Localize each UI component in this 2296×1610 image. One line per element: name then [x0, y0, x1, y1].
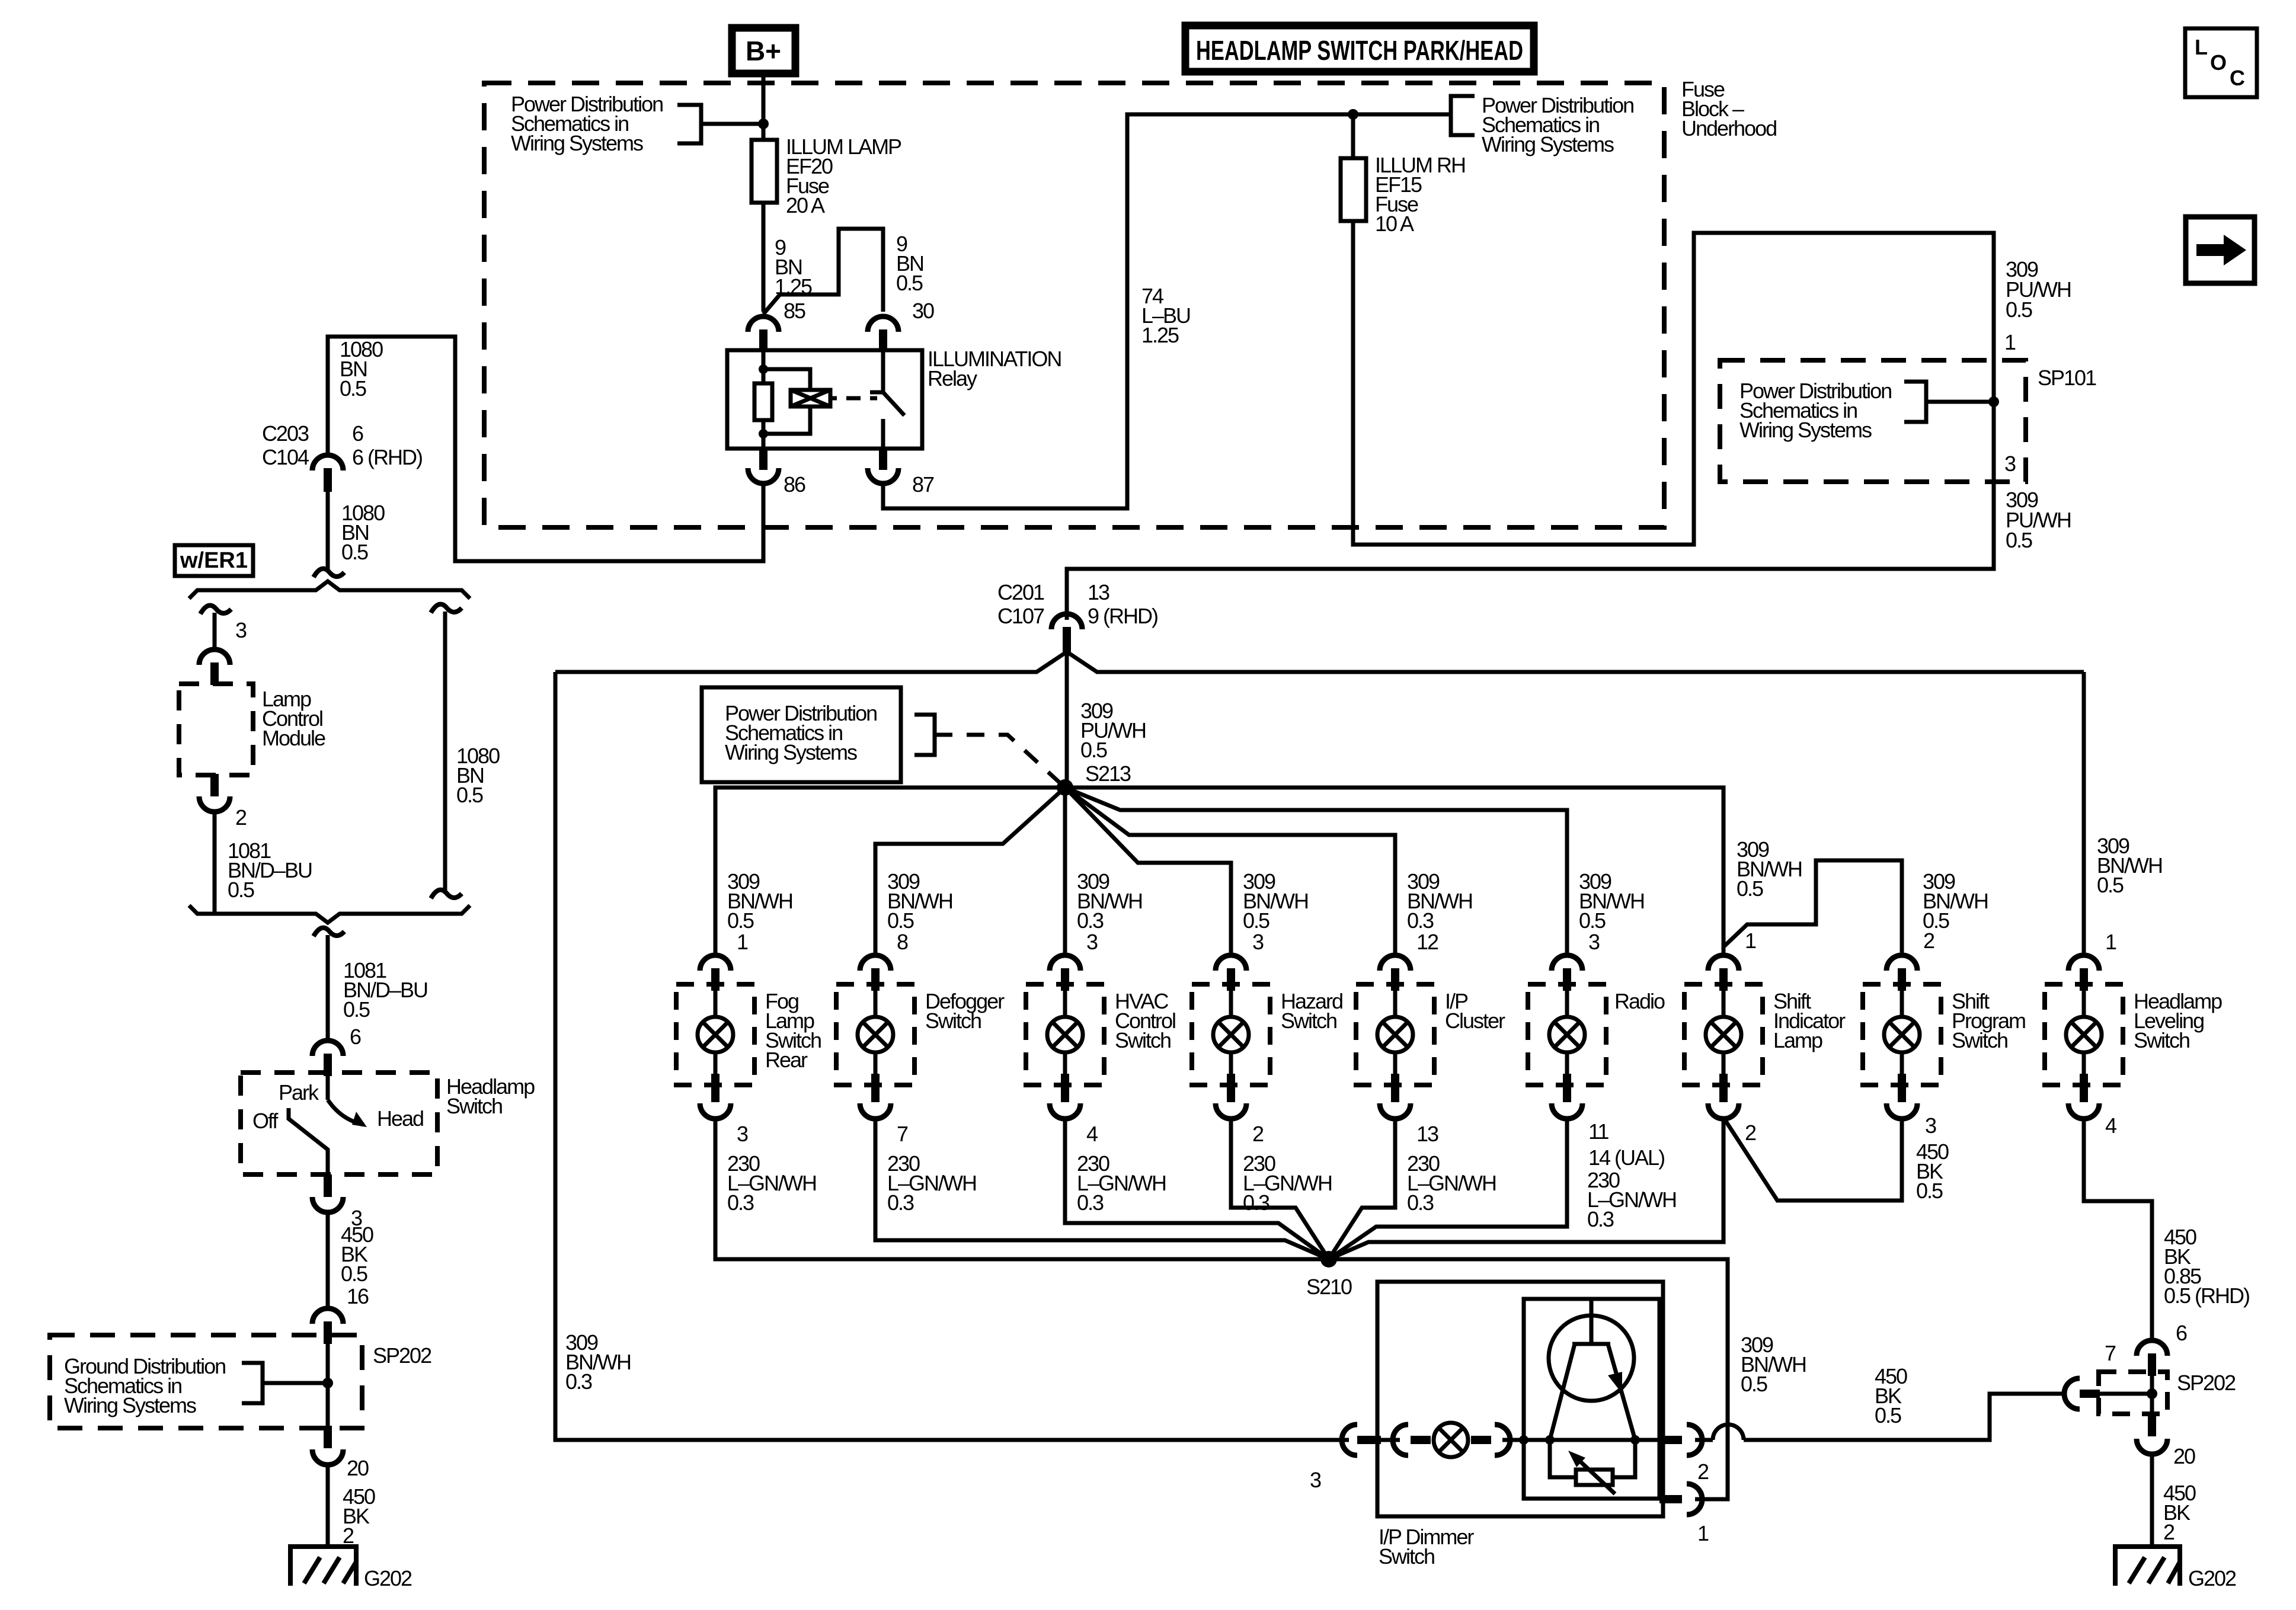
- HVAC control switch illumination lamp: [1026, 930, 1175, 1215]
- transistor emitter arrowhead: [1608, 1372, 1622, 1394]
- wire fuse EF20 to relay pin 85: [762, 203, 766, 312]
- headlamp switch internal contacts: [289, 1073, 364, 1174]
- wire label 309 BN/WH 0.3 I/P cluster: [1407, 869, 1472, 933]
- wire pin 7 to SP202 node: [2100, 1392, 2152, 1396]
- svg-text:1: 1: [737, 930, 748, 954]
- connector arc headlamp switch pin 3: [324, 1174, 332, 1197]
- connector arc dimmer lamp right: [1471, 1436, 1491, 1444]
- arrow continuation box: [2186, 217, 2255, 283]
- connector arc SP202 pin 6: [2137, 1340, 2167, 1356]
- title box HEADLAMP SWITCH PARK/HEAD: [1185, 25, 1534, 72]
- svg-text:Radio: Radio: [1614, 989, 1665, 1013]
- svg-text:1: 1: [2004, 330, 2016, 354]
- wire shift indicator to S210: [1329, 1118, 1723, 1259]
- svg-text:0.3: 0.3: [727, 1190, 754, 1215]
- svg-text:13: 13: [1416, 1122, 1438, 1146]
- wire label 450 BK 0.85 0.5 (RHD): [2164, 1225, 2249, 1308]
- wire through SP202 left: [326, 1340, 330, 1427]
- svg-text:Wiring Systems: Wiring Systems: [1482, 132, 1614, 156]
- wire HVAC to S210: [1065, 1118, 1329, 1259]
- wire left branch to lamp control module: [213, 613, 217, 652]
- wire S213 to defogger switch: [875, 788, 1065, 956]
- svg-text:7: 7: [2105, 1341, 2116, 1365]
- node S213 splice: [1057, 779, 1073, 796]
- bracket for Ground Distribution callout: [242, 1363, 263, 1403]
- label pin 6 / 6 (RHD): [352, 421, 422, 469]
- svg-text:Switch: Switch: [1952, 1028, 2007, 1052]
- wire S213 left to fog lamp switch: [715, 788, 1065, 956]
- svg-text:4: 4: [1086, 1122, 1098, 1146]
- svg-text:0.5: 0.5: [341, 540, 368, 564]
- svg-text:SP202: SP202: [2177, 1371, 2236, 1395]
- svg-text:Switch: Switch: [2134, 1028, 2189, 1052]
- connector arc SP202 left bottom: [324, 1426, 332, 1448]
- connector arc lamp control module bottom: [210, 774, 219, 796]
- brace top (harness split): [189, 581, 470, 598]
- svg-text:G202: G202: [2188, 1566, 2236, 1590]
- defogger switch illumination lamp: [836, 930, 1005, 1215]
- wire C201 down to S213: [1065, 652, 1069, 788]
- bracket for S213 callout: [914, 715, 935, 755]
- svg-text:0.5: 0.5: [340, 376, 366, 401]
- wire label 74 L-BU 1.25: [1141, 284, 1190, 347]
- svg-text:1: 1: [1697, 1521, 1709, 1545]
- svg-text:20 A: 20 A: [786, 193, 825, 217]
- svg-text:30: 30: [912, 299, 934, 323]
- svg-text:3: 3: [2004, 452, 2016, 476]
- node S210 splice: [1320, 1251, 1337, 1267]
- label Headlamp Switch: [446, 1074, 535, 1118]
- svg-text:HEADLAMP SWITCH PARK/HEAD: HEADLAMP SWITCH PARK/HEAD: [1196, 35, 1523, 66]
- I/P cluster illumination lamp: [1356, 930, 1505, 1215]
- wire EF15 down and around to SP101 and C201: [1067, 221, 1994, 620]
- svg-text:Off: Off: [252, 1109, 279, 1133]
- svg-text:11: 11: [1588, 1119, 1609, 1144]
- svg-text:0.3: 0.3: [887, 1190, 914, 1215]
- label C201 C107: [997, 580, 1044, 628]
- svg-text:2: 2: [1252, 1122, 1264, 1146]
- wire label 309 BN/WH 0.5 hazard: [1243, 869, 1308, 933]
- svg-text:Wiring Systems: Wiring Systems: [725, 740, 857, 764]
- svg-text:0.5: 0.5: [896, 271, 923, 295]
- svg-text:Rear: Rear: [765, 1048, 808, 1072]
- svg-text:0.3: 0.3: [1407, 1190, 1434, 1215]
- wire break squiggle right branch bottom: [431, 890, 462, 898]
- dimmer illumination lamp: [1434, 1423, 1468, 1457]
- wire SP202 to ground G202 right: [2150, 1453, 2154, 1547]
- svg-text:2: 2: [343, 1523, 354, 1548]
- wire C201 fanout to distribution bus: [555, 652, 2084, 672]
- wire headlamp switch to SP202: [326, 1211, 330, 1311]
- callout box Power Distribution Schematics (S213): [702, 687, 901, 782]
- svg-text:0.5: 0.5: [2006, 297, 2032, 322]
- w/ER1 reference box: [175, 545, 253, 576]
- wire S213 main to shift indicator lamp: [1065, 788, 1723, 956]
- svg-text:Relay: Relay: [928, 366, 977, 391]
- svg-text:Switch: Switch: [925, 1009, 981, 1033]
- wire junction down to fuse EF15: [1351, 114, 1355, 158]
- radio illumination lamp: [1528, 930, 1676, 1231]
- connector arc dimmer pin 1: [1659, 1495, 1682, 1503]
- relay internal node bottom: [759, 429, 768, 438]
- wire junction to right Power Distribution bracket: [1353, 113, 1451, 117]
- svg-text:12: 12: [1416, 930, 1438, 954]
- wire bracket to SP202 node: [263, 1381, 328, 1385]
- svg-text:3: 3: [1310, 1468, 1321, 1492]
- svg-text:0.5: 0.5: [887, 908, 914, 933]
- wire lamp to module: [1502, 1438, 1524, 1442]
- svg-text:0.5: 0.5: [343, 997, 370, 1022]
- svg-text:3: 3: [1925, 1113, 1936, 1138]
- svg-text:85: 85: [784, 299, 805, 323]
- callout Power Distribution Schematics (fuse block left): [511, 92, 663, 155]
- svg-text:L: L: [2195, 35, 2208, 59]
- svg-text:3: 3: [235, 618, 247, 642]
- relay linkage dashed: [830, 396, 877, 401]
- wire label 309 BN/WH 0.5 radio: [1579, 869, 1644, 933]
- ground G202 left: [290, 1547, 356, 1586]
- connector arc pin 85: [748, 316, 779, 332]
- wire label 450 BK 0.5 (dimmer to SP202): [1875, 1364, 1907, 1427]
- wire label 450 BK 0.5 left: [341, 1222, 373, 1286]
- shift indicator lamp: [1684, 929, 1846, 1145]
- wire label 309 BN/WH 0.3 (dimmer feed): [565, 1330, 631, 1394]
- svg-text:Cluster: Cluster: [1445, 1009, 1505, 1033]
- svg-text:SP202: SP202: [373, 1343, 431, 1368]
- svg-text:Underhood: Underhood: [1681, 116, 1776, 140]
- relay ILLUMINATION Relay box: [727, 350, 922, 449]
- svg-text:S213: S213: [1085, 761, 1131, 786]
- wire break squiggle below bottom brace: [314, 928, 344, 936]
- svg-text:0.5: 0.5: [228, 878, 254, 902]
- connector arc dimmer pin 3: [1342, 1425, 1357, 1455]
- relay resistor: [754, 383, 772, 420]
- wire branch from EF20 to relay pin 30: [763, 229, 883, 314]
- wire brace to headlamp switch: [326, 935, 330, 1043]
- relay internal node top: [759, 364, 768, 374]
- node at B+ feed junction: [758, 119, 769, 129]
- svg-text:0.3: 0.3: [1243, 1190, 1269, 1215]
- wire hazard to S210: [1231, 1118, 1329, 1259]
- wire S213 to radio: [1065, 788, 1567, 956]
- svg-text:Switch: Switch: [1379, 1544, 1434, 1569]
- wire B+ down to fuse EF20: [762, 73, 766, 140]
- fog lamp switch rear illumination lamp: [676, 930, 821, 1215]
- wire label 309 BN/WH 0.5 fog: [727, 869, 792, 933]
- label I/P Dimmer Switch: [1379, 1525, 1474, 1569]
- wire label 309 BN/WH 0.5 headlamp leveling: [2097, 834, 2162, 897]
- svg-text:S210: S210: [1306, 1275, 1352, 1299]
- wire label 1080 BN 0.5 lower: [341, 501, 385, 564]
- label Lamp Control Module: [262, 687, 325, 750]
- connector arc SP202 right bottom: [2148, 1414, 2156, 1436]
- wire label 309 BN/WH 0.5 defogger: [887, 869, 952, 933]
- relay switch contact: [870, 350, 904, 449]
- dimmer transistor module box: [1524, 1299, 1659, 1499]
- svg-text:3: 3: [737, 1122, 748, 1146]
- bracket for right Power Distribution callout: [1451, 96, 1475, 135]
- wire bracket to B+ node: [701, 122, 763, 126]
- svg-text:0.5: 0.5: [456, 783, 483, 807]
- svg-text:0.5: 0.5: [1579, 908, 1606, 933]
- svg-text:9 (RHD): 9 (RHD): [1088, 604, 1157, 628]
- wire radio to S210: [1329, 1118, 1567, 1259]
- svg-text:C107: C107: [997, 604, 1044, 628]
- svg-text:8: 8: [897, 930, 908, 954]
- wire label 309 BN/WH 0.5 shift indicator: [1737, 837, 1802, 901]
- svg-text:0.5: 0.5: [1737, 876, 1763, 901]
- LOC reference box: [2185, 28, 2257, 97]
- svg-text:2: 2: [1923, 929, 1934, 953]
- svg-text:0.5: 0.5: [2006, 528, 2032, 552]
- svg-text:3: 3: [1252, 930, 1264, 954]
- svg-text:3: 3: [1588, 930, 1600, 954]
- relay coil box with X: [791, 390, 830, 406]
- svg-text:0.5: 0.5: [341, 1262, 367, 1286]
- I/P dimmer switch outer box: [1377, 1282, 1663, 1516]
- splice SP202 right dashed box: [2099, 1372, 2167, 1414]
- svg-text:0.5: 0.5: [1080, 738, 1107, 762]
- svg-text:B+: B+: [746, 36, 781, 66]
- svg-text:0.5: 0.5: [727, 908, 754, 933]
- node module entry: [1519, 1435, 1528, 1445]
- svg-text:0.5: 0.5: [1916, 1179, 1943, 1203]
- svg-text:0.3: 0.3: [565, 1369, 592, 1394]
- svg-text:C: C: [2230, 66, 2245, 90]
- label 309 PU/WH 0.5 upper right: [2006, 257, 2071, 322]
- B+ power symbol box: [732, 28, 795, 73]
- wire label 450 BK 2 left: [343, 1484, 375, 1548]
- hazard switch illumination lamp: [1192, 930, 1342, 1215]
- potentiometer arrow: [1573, 1455, 1615, 1494]
- wire pin 87 to EF15 feed junction: [883, 114, 1353, 508]
- node SP101 splice: [1988, 396, 1999, 407]
- wire headlamp leveling to SP202 pin 6: [2084, 1118, 2152, 1340]
- wire right branch 1080 BN: [443, 612, 447, 894]
- fuse EF20 ILLUM LAMP: [752, 140, 777, 203]
- fuse EF15 ILLUM RH: [1341, 158, 1366, 221]
- svg-text:3: 3: [1086, 930, 1098, 954]
- wire through module: [1524, 1438, 1659, 1442]
- wire bus down to headlamp leveling switch: [2082, 672, 2086, 956]
- svg-text:6: 6: [352, 421, 363, 446]
- wire S213 down to HVAC switch: [1063, 788, 1067, 956]
- svg-text:10 A: 10 A: [1375, 212, 1414, 236]
- label Fuse Block Underhood: [1681, 77, 1776, 140]
- connector arc dimmer pin 2: [1659, 1436, 1682, 1444]
- wire I/P cluster to S210: [1329, 1118, 1395, 1259]
- svg-text:20: 20: [347, 1456, 369, 1480]
- node SP202 left splice: [322, 1378, 333, 1388]
- wire label 309 BN/WH 0.5 shift program: [1923, 869, 1988, 933]
- wire dimmer feed from bus: [555, 672, 1349, 1440]
- connector C201/C107: [1051, 614, 1082, 629]
- svg-text:0.5 (RHD): 0.5 (RHD): [2164, 1283, 2249, 1308]
- svg-text:Wiring Systems: Wiring Systems: [511, 131, 643, 155]
- splice SP202 left dashed box: [50, 1335, 362, 1428]
- svg-text:G202: G202: [364, 1566, 412, 1590]
- wire defogger to S210: [875, 1118, 1329, 1259]
- connector arc SP202 left top: [312, 1308, 343, 1324]
- svg-text:6 (RHD): 6 (RHD): [352, 445, 422, 469]
- shift program switch illumination lamp: [1863, 929, 2025, 1203]
- node EF15 feed junction: [1348, 109, 1358, 120]
- wire S213 to hazard switch: [1065, 788, 1231, 956]
- svg-text:20: 20: [2173, 1444, 2195, 1468]
- svg-text:7: 7: [897, 1122, 908, 1146]
- svg-text:Switch: Switch: [446, 1094, 502, 1118]
- svg-text:0.5: 0.5: [1741, 1372, 1767, 1396]
- svg-text:Switch: Switch: [1115, 1028, 1171, 1052]
- svg-text:Head: Head: [377, 1106, 423, 1131]
- connector arc pin 86: [759, 449, 768, 470]
- callout Power Distribution Schematics (SP101): [1739, 379, 1891, 442]
- node SP202 right splice: [2147, 1388, 2157, 1399]
- connector arc pin 87: [879, 449, 887, 470]
- wire shift indicator to shift program pin 3: [1723, 1118, 1902, 1201]
- label C203 C104: [262, 421, 309, 469]
- wire SP202 to ground G202 left: [326, 1464, 330, 1545]
- svg-text:SP101: SP101: [2038, 366, 2096, 390]
- svg-text:14 (UAL): 14 (UAL): [1588, 1145, 1664, 1170]
- svg-text:6: 6: [350, 1025, 361, 1049]
- svg-text:6: 6: [2176, 1321, 2187, 1345]
- svg-text:2: 2: [1697, 1459, 1709, 1484]
- wire C203 to brace: [326, 492, 330, 570]
- wire label 1081 BN/D-BU 0.5 lower: [343, 958, 427, 1022]
- wire label 1080 BN 0.5 right branch: [456, 744, 500, 807]
- wire break squiggle above top brace: [314, 569, 344, 577]
- wire dimmer pin 2 to SP202 with hop over: [1695, 1394, 2064, 1440]
- svg-text:Switch: Switch: [1281, 1009, 1336, 1033]
- svg-text:0.5: 0.5: [1875, 1403, 1901, 1427]
- relay coil wire left: [762, 350, 766, 449]
- wire label 309 BN/WH 0.3 HVAC: [1077, 869, 1142, 933]
- svg-text:0.3: 0.3: [1587, 1207, 1614, 1231]
- wire label 1081 BN/D-BU 0.5 left: [228, 838, 312, 902]
- lamp control module dashed box: [179, 684, 253, 775]
- svg-text:2: 2: [2163, 1520, 2175, 1544]
- wire label 450 BK 2 right: [2163, 1481, 2196, 1544]
- svg-text:16: 16: [347, 1284, 369, 1308]
- svg-text:0.3: 0.3: [1077, 908, 1104, 933]
- relay coil branch wires: [763, 369, 810, 434]
- svg-text:2: 2: [1745, 1121, 1756, 1145]
- callout Power Distribution Schematics (fuse block right): [1482, 93, 1633, 156]
- label pin 13 / 9 (RHD): [1088, 580, 1157, 628]
- brace bottom (harness merge): [189, 905, 470, 923]
- wire label 9 BN 0.5: [896, 232, 923, 295]
- svg-text:Module: Module: [262, 726, 325, 750]
- wire label 309 BN/WH 0.5 (S210 to dimmer pin 1): [1741, 1333, 1806, 1396]
- svg-text:Wiring Systems: Wiring Systems: [64, 1393, 196, 1417]
- wire break squiggle right branch top: [431, 604, 462, 613]
- bracket for SP101 callout: [1904, 382, 1926, 422]
- svg-text:0.5: 0.5: [2097, 873, 2124, 897]
- connector arc dimmer lamp left: [1393, 1425, 1408, 1455]
- bracket for left Power Distribution callout: [677, 105, 701, 143]
- ground G202 right: [2115, 1547, 2180, 1586]
- svg-text:0.3: 0.3: [1077, 1190, 1104, 1215]
- svg-text:C104: C104: [262, 445, 309, 469]
- label 309 PU/WH 0.5 lower right: [2006, 488, 2071, 552]
- wire module to bottom brace: [213, 811, 217, 914]
- fuse block underhood dashed box: [484, 83, 1664, 527]
- svg-text:w/ER1: w/ER1: [180, 548, 248, 573]
- connector arc SP202 pin 7: [2064, 1378, 2080, 1409]
- svg-text:13: 13: [1088, 580, 1109, 604]
- svg-text:0.3: 0.3: [1407, 908, 1434, 933]
- connector arc pin 30: [868, 316, 898, 332]
- svg-text:87: 87: [912, 472, 934, 497]
- wire pin 86 to connector C203: [328, 337, 763, 561]
- splice SP101 dashed box: [1720, 360, 2026, 482]
- wire SP101 bracket to splice node: [1926, 400, 1994, 404]
- wire through SP202 right: [2150, 1372, 2154, 1415]
- connector C203/C104: [312, 455, 343, 470]
- svg-text:0.5: 0.5: [1243, 908, 1269, 933]
- dashed leader wire to S213: [935, 735, 1065, 788]
- label ILLUM RH EF15 Fuse 10 A: [1375, 153, 1465, 236]
- label ILLUMINATION Relay: [928, 347, 1061, 391]
- svg-text:C203: C203: [262, 421, 309, 446]
- svg-text:1: 1: [2105, 930, 2116, 954]
- svg-text:O: O: [2210, 50, 2227, 75]
- svg-text:1.25: 1.25: [1141, 323, 1179, 347]
- svg-text:2: 2: [235, 805, 247, 830]
- wire S213 to I/P cluster: [1065, 788, 1395, 956]
- potentiometer loop wires: [1550, 1440, 1635, 1477]
- headlamp switch dashed box: [241, 1073, 437, 1174]
- svg-text:C201: C201: [997, 580, 1044, 604]
- potentiometer: [1576, 1470, 1613, 1485]
- node transistor right leg: [1630, 1435, 1640, 1445]
- connector arc lamp control module top: [199, 649, 230, 665]
- svg-text:1: 1: [1745, 929, 1756, 953]
- wire fog lamp to S210 main bus and down to dimmer pin 1: [715, 1118, 1728, 1499]
- wire break squiggle left branch top: [200, 606, 231, 614]
- wire label 1080 BN 0.5 upper: [340, 337, 383, 401]
- svg-text:Park: Park: [279, 1080, 319, 1105]
- node transistor left leg: [1545, 1435, 1555, 1445]
- connector arc headlamp switch pin 6: [312, 1041, 343, 1056]
- callout Ground Distribution Schematics: [64, 1354, 225, 1417]
- wire label 9 BN 1.25: [775, 235, 812, 299]
- svg-text:86: 86: [784, 472, 805, 497]
- transistor base and legs: [1550, 1299, 1635, 1440]
- headlamp leveling switch illumination lamp: [2045, 930, 2222, 1138]
- svg-text:Wiring Systems: Wiring Systems: [1739, 418, 1872, 442]
- svg-text:4: 4: [2105, 1113, 2116, 1138]
- transistor circle: [1549, 1315, 1634, 1401]
- wire label 309 PU/WH 0.5 (S213 feed): [1080, 699, 1146, 762]
- label ILLUM LAMP EF20 Fuse 20 A: [786, 135, 901, 217]
- wire shift indicator zigzag to shift program switch: [1723, 860, 1902, 956]
- svg-text:Lamp: Lamp: [1773, 1028, 1822, 1052]
- wire dimmer internal left: [1381, 1438, 1400, 1442]
